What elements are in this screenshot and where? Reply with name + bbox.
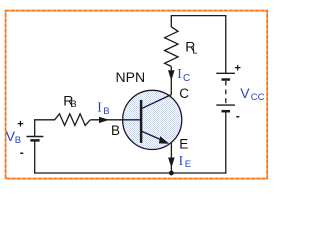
battery VCC cell1 short plate	[222, 78, 231, 81]
wire base left segment	[34, 119, 55, 121]
wire right vertical upper	[225, 15, 227, 73]
svg-text:I: I	[177, 66, 182, 81]
transistor emitter arrowhead	[159, 136, 169, 144]
arrow IC	[168, 70, 175, 80]
wire base right segment	[90, 119, 122, 121]
junction node dot	[169, 171, 174, 176]
wire right vertical lower	[225, 111, 227, 173]
svg-text:B: B	[103, 106, 109, 117]
frame border	[6, 11, 268, 179]
transistor base bar	[140, 100, 143, 143]
wire top (RL top to VCC top)	[171, 15, 226, 17]
svg-text:NPN: NPN	[116, 69, 146, 85]
transistor collector diagonal	[141, 95, 171, 109]
svg-text:B: B	[70, 99, 76, 110]
wire left vertical upper	[34, 119, 36, 136]
svg-text:I: I	[97, 99, 102, 114]
svg-text:E: E	[185, 159, 191, 170]
transistor emitter diagonal	[141, 131, 163, 141]
svg-text:L: L	[192, 45, 197, 56]
svg-text:I: I	[179, 153, 184, 168]
wire left vertical lower	[34, 140, 36, 173]
svg-text:-: -	[20, 146, 24, 160]
svg-text:B: B	[15, 135, 21, 146]
battery VCC dashed link	[225, 81, 227, 105]
svg-text:CC: CC	[251, 92, 265, 103]
svg-text:C: C	[183, 73, 190, 84]
svg-text:+: +	[17, 118, 23, 130]
resistor RB	[55, 114, 91, 126]
svg-text:E: E	[179, 136, 188, 151]
transistor base wire inside	[122, 119, 141, 121]
svg-text:+: +	[235, 63, 241, 75]
battery VB short plate	[30, 139, 39, 142]
wire emitter lead	[170, 143, 172, 173]
wire collector lead	[170, 66, 172, 94]
arrow IE	[168, 158, 175, 168]
svg-text:B: B	[111, 123, 120, 138]
transistor Q1 body	[123, 90, 182, 149]
wire bottom	[34, 172, 226, 174]
battery VCC cell2 short plate	[222, 110, 231, 113]
arrow IB	[99, 117, 109, 123]
battery VB long plate	[27, 136, 44, 138]
svg-text:-: -	[236, 109, 240, 123]
svg-text:V: V	[240, 85, 250, 101]
battery VCC cell2 long plate	[216, 104, 235, 106]
resistor RL	[165, 27, 178, 67]
svg-text:C: C	[179, 86, 189, 101]
wire RL top lead	[170, 15, 172, 27]
battery VCC cell1 long plate	[216, 72, 235, 74]
